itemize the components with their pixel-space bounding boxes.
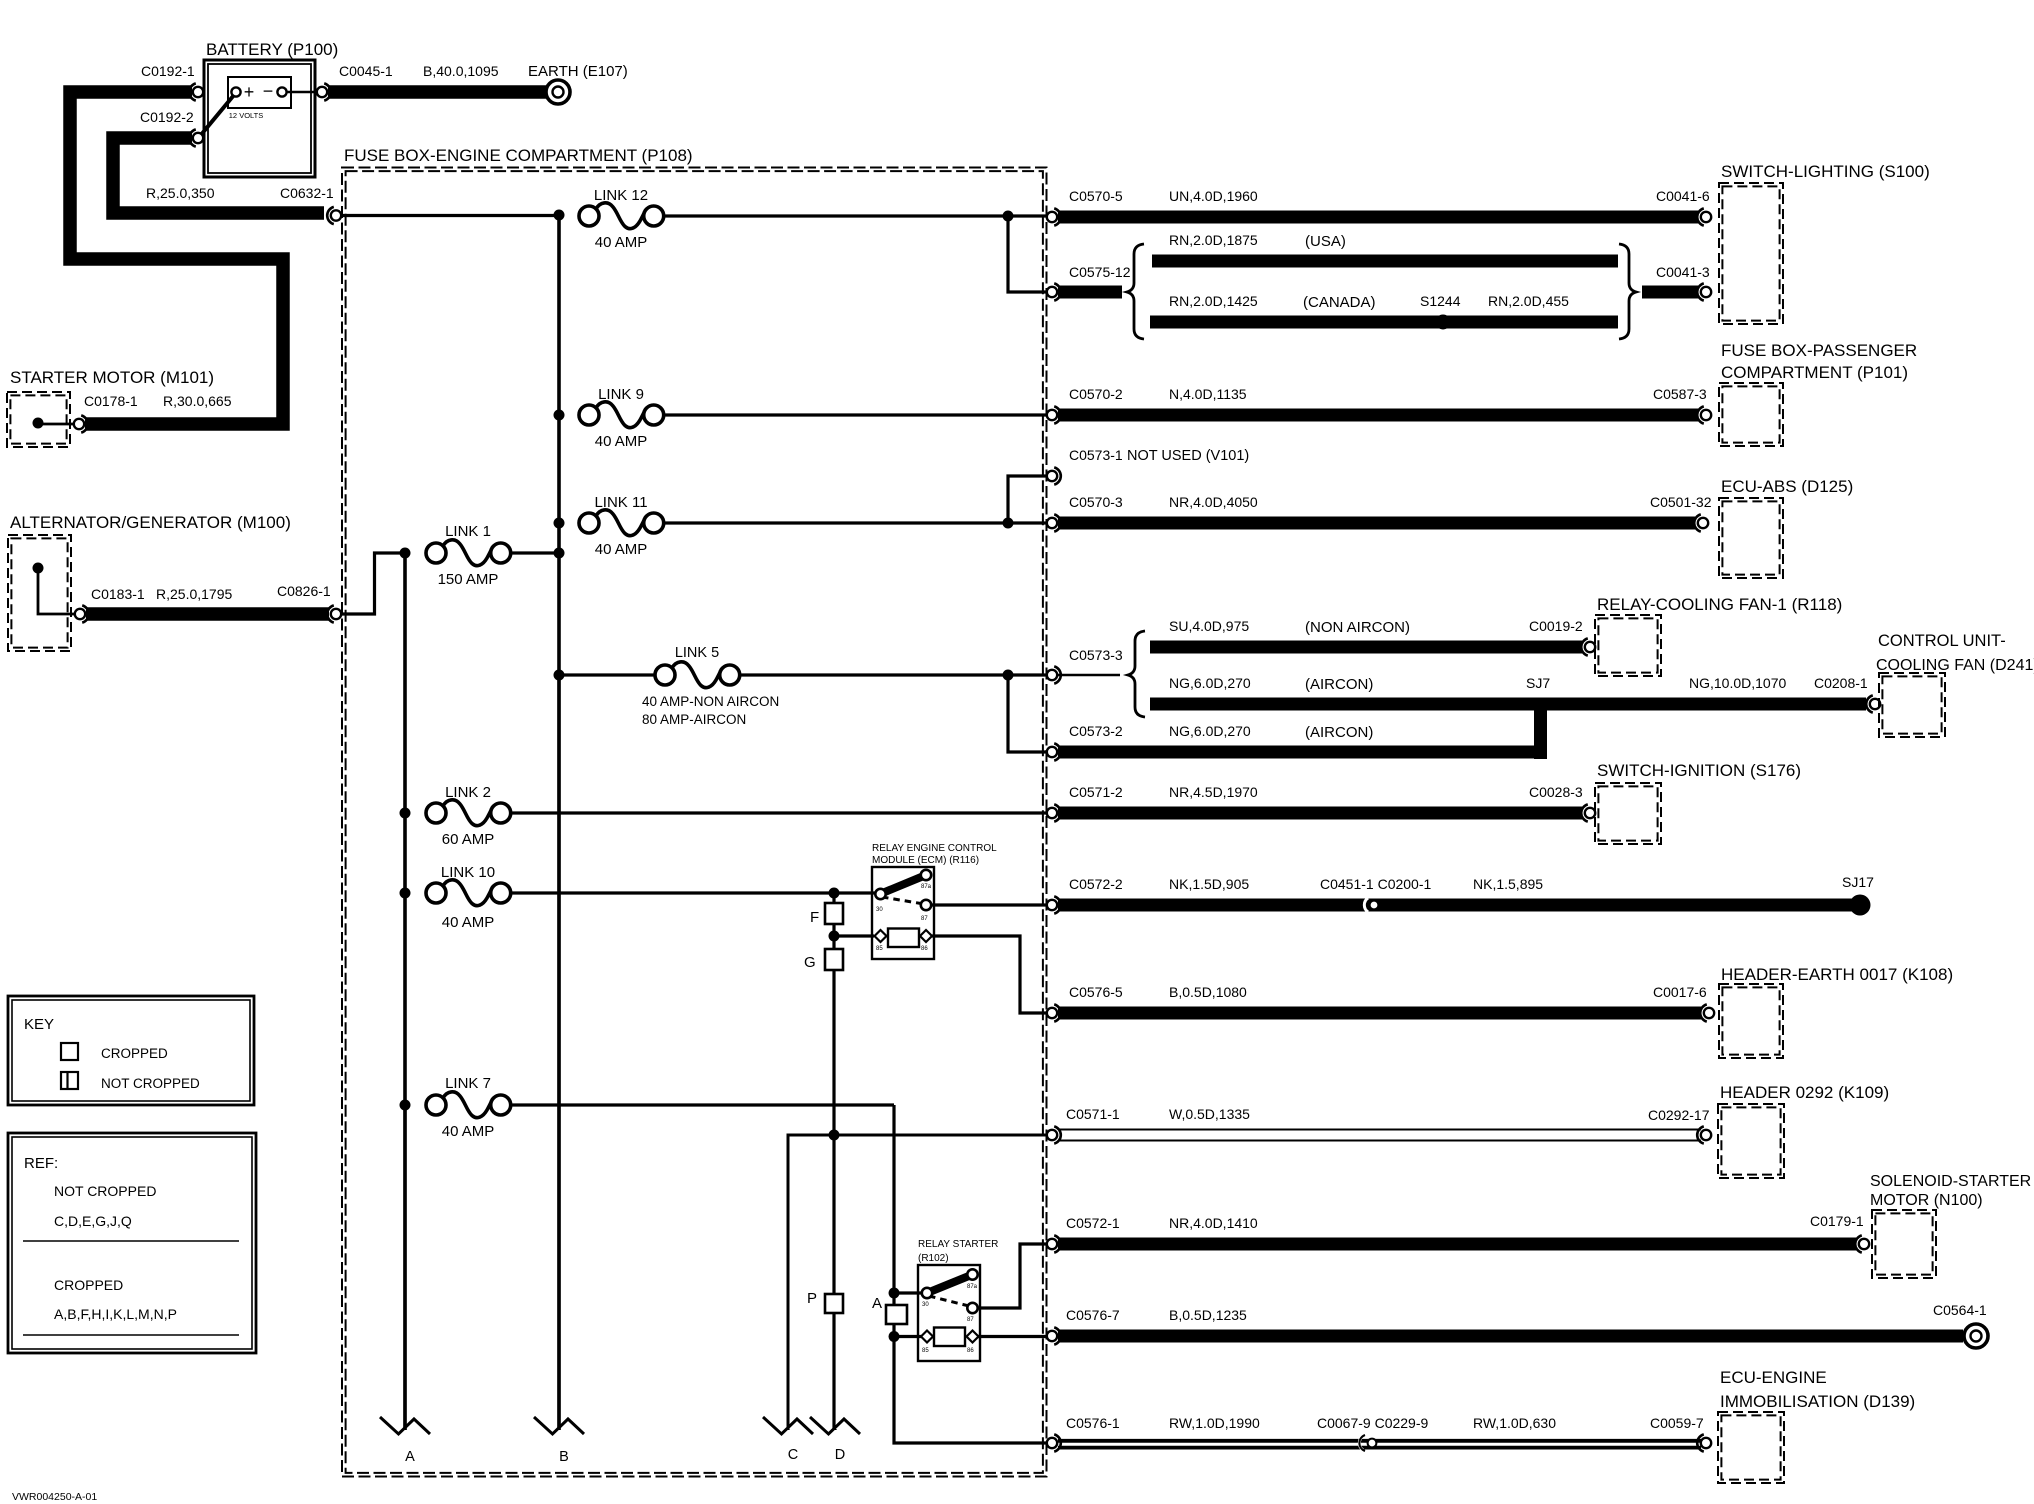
wire B,0.5D,1235 to C0564-1 <box>1058 1330 1963 1343</box>
svg-text:NG,6.0D,270: NG,6.0D,270 <box>1169 723 1251 739</box>
svg-text:B,0.5D,1080: B,0.5D,1080 <box>1169 984 1247 1000</box>
wire W,0.5D,1335 (thin outline) to header 0292 <box>1058 1130 1701 1141</box>
svg-text:B,0.5D,1235: B,0.5D,1235 <box>1169 1307 1247 1323</box>
node C0632-1 <box>331 210 341 220</box>
wire C0632-1 to LINK 12 <box>342 214 559 217</box>
svg-text:ALTERNATOR/GENERATOR (M100): ALTERNATOR/GENERATOR (M100) <box>10 513 291 532</box>
svg-text:B,40.0,1095: B,40.0,1095 <box>423 63 499 79</box>
wire LINK 5 output to C0573-3 <box>740 673 1047 676</box>
svg-text:C0572-2: C0572-2 <box>1069 876 1123 892</box>
svg-text:C0826-1: C0826-1 <box>277 583 331 599</box>
svg-text:RELAY STARTER: RELAY STARTER <box>918 1239 998 1250</box>
svg-text:SWITCH-LIGHTING (S100): SWITCH-LIGHTING (S100) <box>1721 162 1930 181</box>
svg-text:CROPPED: CROPPED <box>101 1046 168 1061</box>
wire R116 coil to C0576-5 <box>932 936 1047 1013</box>
svg-text:85: 85 <box>876 946 883 952</box>
svg-text:C0573-2: C0573-2 <box>1069 723 1123 739</box>
svg-text:NOT CROPPED: NOT CROPPED <box>54 1183 156 1199</box>
junction bus B top <box>554 210 565 221</box>
svg-text:30: 30 <box>922 1302 929 1308</box>
svg-text:S1244: S1244 <box>1420 293 1461 309</box>
wire NK,1.5D,905 / NK,1.5,895 to SJ17 <box>1058 899 1852 912</box>
junction G line / C0571-1 <box>829 1130 840 1141</box>
svg-text:IMMOBILISATION (D139): IMMOBILISATION (D139) <box>1720 1392 1915 1411</box>
wire label R,25.0,350 / C0632-1 <box>146 185 334 201</box>
starter motor M101 <box>7 368 214 447</box>
svg-text:B: B <box>559 1449 569 1465</box>
wire battery positive C0192-1 heavy cable to starter <box>70 92 283 424</box>
svg-text:EARTH (E107): EARTH (E107) <box>528 63 628 80</box>
node C0576-7 <box>1047 1307 1247 1345</box>
svg-text:C,D,E,G,J,Q: C,D,E,G,J,Q <box>54 1213 132 1229</box>
node C0192-1 <box>141 63 203 101</box>
key legend box <box>8 996 254 1105</box>
svg-text:C0041-3: C0041-3 <box>1656 264 1710 280</box>
switch-lighting S100 <box>1719 162 1930 324</box>
junction C0573-2 branch <box>1003 670 1014 681</box>
svg-text:C0179-1: C0179-1 <box>1810 1213 1864 1229</box>
svg-text:60 AMP: 60 AMP <box>442 831 495 848</box>
node C off-page arrow <box>763 1417 813 1463</box>
svg-text:C0292-17: C0292-17 <box>1648 1107 1710 1123</box>
svg-text:SWITCH-IGNITION (S176): SWITCH-IGNITION (S176) <box>1597 761 1801 780</box>
svg-text:BATTERY (P100): BATTERY (P100) <box>206 40 338 59</box>
node C0501-32 <box>1650 494 1712 532</box>
node C0826-1 <box>331 609 341 619</box>
svg-text:C0501-32: C0501-32 <box>1650 494 1712 510</box>
node C0573-1 NOT USED (V101) <box>1047 447 1249 485</box>
svg-text:40 AMP: 40 AMP <box>595 433 648 450</box>
node C0019-2 <box>1529 618 1595 656</box>
svg-text:FUSE BOX-ENGINE COMPARTMENT (P: FUSE BOX-ENGINE COMPARTMENT (P108) <box>344 146 693 165</box>
svg-text:NG,10.0D,1070: NG,10.0D,1070 <box>1689 675 1786 691</box>
svg-text:VWR004250-A-01: VWR004250-A-01 <box>12 1491 97 1503</box>
fuse LINK 9 40 AMP <box>579 402 664 428</box>
wire R102 output to C0572-1 <box>977 1244 1047 1308</box>
relay engine control module R116 <box>872 843 997 959</box>
svg-text:RN,2.0D,1875: RN,2.0D,1875 <box>1169 232 1258 248</box>
svg-text:(USA): (USA) <box>1305 233 1346 250</box>
svg-text:RN,2.0D,455: RN,2.0D,455 <box>1488 293 1569 309</box>
relay cooling fan-1 R118 <box>1595 595 1842 676</box>
svg-text:C0067-9 C0229-9: C0067-9 C0229-9 <box>1317 1415 1429 1431</box>
svg-text:NK,1.5D,905: NK,1.5D,905 <box>1169 876 1249 892</box>
svg-text:R,30.0,665: R,30.0,665 <box>163 393 232 409</box>
svg-text:(CANADA): (CANADA) <box>1303 294 1376 311</box>
svg-text:STARTER MOTOR (M101): STARTER MOTOR (M101) <box>10 368 214 387</box>
svg-text:R,25.0,1795: R,25.0,1795 <box>156 586 232 602</box>
svg-text:LINK 10: LINK 10 <box>441 864 495 881</box>
svg-text:C0019-2: C0019-2 <box>1529 618 1583 634</box>
brace for aircon/non-aircon branches <box>1128 631 1145 717</box>
fuse P <box>807 1135 843 1430</box>
node C0572-1 <box>1047 1215 1258 1253</box>
wire RN,2.0D,1875 (USA) <box>1152 232 1618 268</box>
svg-text:C0017-6: C0017-6 <box>1653 984 1707 1000</box>
junction LINK 5 <box>554 670 565 681</box>
svg-text:UN,4.0D,1960: UN,4.0D,1960 <box>1169 188 1258 204</box>
node C0572-2 <box>1047 876 1250 914</box>
wire LINK 11 output to C0570-3 <box>664 521 1047 524</box>
wire LINK 10 output to relay R116 <box>511 891 876 894</box>
node C0570-5 <box>1047 188 1258 226</box>
svg-text:SU,4.0D,975: SU,4.0D,975 <box>1169 618 1249 634</box>
svg-text:(AIRCON): (AIRCON) <box>1305 724 1373 741</box>
svg-text:SOLENOID-STARTER: SOLENOID-STARTER <box>1870 1173 2031 1190</box>
node C0183-1 / wire R,25.0,1795 to C0826-1 <box>75 586 329 623</box>
splice SJ17 <box>1842 874 1874 916</box>
fuse F <box>810 893 843 936</box>
node C0292-17 <box>1648 1107 1711 1144</box>
svg-text:SJ7: SJ7 <box>1526 675 1550 691</box>
ref legend box <box>8 1133 256 1353</box>
node C0570-2 <box>1047 386 1247 424</box>
svg-text:W,0.5D,1335: W,0.5D,1335 <box>1169 1106 1250 1122</box>
svg-text:LINK 2: LINK 2 <box>445 784 491 801</box>
key not cropped symbol <box>61 1072 200 1091</box>
svg-text:RELAY-COOLING FAN-1 (R118): RELAY-COOLING FAN-1 (R118) <box>1597 595 1842 614</box>
svg-text:12 VOLTS: 12 VOLTS <box>229 111 263 120</box>
switch-ignition S176 <box>1595 761 1801 844</box>
svg-text:A,B,F,H,I,K,L,M,N,P: A,B,F,H,I,K,L,M,N,P <box>54 1306 177 1322</box>
svg-text:85: 85 <box>922 1348 929 1354</box>
wire N,4.0D,1135 to fuse box passenger compartment <box>1058 409 1698 422</box>
ECU engine immobilisation D139 <box>1718 1368 1915 1483</box>
junction for C0575-12 branch <box>1003 211 1014 222</box>
node C0570-3 <box>1047 494 1258 532</box>
svg-text:C0564-1: C0564-1 <box>1933 1302 1987 1318</box>
svg-text:C0576-5: C0576-5 <box>1069 984 1123 1000</box>
svg-text:C0059-7: C0059-7 <box>1650 1415 1704 1431</box>
svg-text:C0208-1: C0208-1 <box>1814 675 1868 691</box>
svg-text:LINK 5: LINK 5 <box>675 645 719 661</box>
header 0292 K109 <box>1718 1083 1889 1178</box>
svg-text:C0192-1: C0192-1 <box>141 63 195 79</box>
node C0571-1 <box>1047 1106 1250 1144</box>
wire junction to R116 coil <box>834 934 874 937</box>
fuse LINK 11 40 AMP <box>579 510 664 536</box>
wire labels NG,10.0D,1070 / C0208-1 <box>1689 675 1868 691</box>
svg-text:KEY: KEY <box>24 1016 54 1033</box>
battery P100 <box>200 40 338 177</box>
svg-text:CONTROL UNIT-: CONTROL UNIT- <box>1878 632 2006 650</box>
svg-text:P: P <box>807 1290 817 1307</box>
node C0041-6 <box>1656 188 1711 226</box>
wire C0826-1 up to LINK 1 <box>342 553 405 614</box>
svg-text:NK,1.5,895: NK,1.5,895 <box>1473 876 1543 892</box>
wire LINK 7 output across to C0576-1 feed <box>511 1103 894 1106</box>
wire NR,4.0D,4050 to ECU-ABS <box>1058 517 1695 530</box>
fuse LINK 7 40 AMP <box>426 1092 511 1118</box>
svg-text:HEADER-EARTH 0017 (K108): HEADER-EARTH 0017 (K108) <box>1721 965 1953 984</box>
svg-text:(NON AIRCON): (NON AIRCON) <box>1305 619 1410 636</box>
wire RW,1.0D,1990 / RW,1.0D,630 to ECU immobilisation <box>1058 1441 1701 1448</box>
svg-text:NR,4.5D,1970: NR,4.5D,1970 <box>1169 784 1258 800</box>
svg-text:C0576-1: C0576-1 <box>1066 1415 1120 1431</box>
svg-text:87: 87 <box>921 916 928 922</box>
svg-text:C0571-1: C0571-1 <box>1066 1106 1120 1122</box>
svg-text:SJ17: SJ17 <box>1842 874 1874 890</box>
fuse LINK 5 <box>642 645 779 727</box>
svg-text:A: A <box>872 1295 882 1312</box>
svg-text:30: 30 <box>876 907 883 913</box>
wire R102 coil to C0576-7 <box>978 1335 1047 1338</box>
svg-text:RELAY ENGINE CONTROL: RELAY ENGINE CONTROL <box>872 843 997 854</box>
svg-text:C0573-1: C0573-1 <box>1069 447 1123 463</box>
svg-text:FUSE BOX-PASSENGER: FUSE BOX-PASSENGER <box>1721 341 1917 360</box>
svg-text:HEADER 0292 (K109): HEADER 0292 (K109) <box>1720 1083 1889 1102</box>
coil pins R116 <box>875 930 933 952</box>
svg-text:ECU-ENGINE: ECU-ENGINE <box>1720 1368 1827 1387</box>
svg-text:LINK 12: LINK 12 <box>594 187 648 204</box>
svg-text:C0570-3: C0570-3 <box>1069 494 1123 510</box>
wire battery negative C0192-2 to fuse box C0632-1 <box>113 138 324 213</box>
key cropped symbol <box>61 1043 168 1061</box>
svg-text:C0451-1 C0200-1: C0451-1 C0200-1 <box>1320 876 1432 892</box>
wire B,0.5D,1080 to header-earth <box>1058 1007 1701 1020</box>
node C0178-1 <box>74 393 232 433</box>
splice SJ7 vertical link <box>1526 675 1550 759</box>
splice S1244 <box>1420 293 1461 330</box>
svg-text:87: 87 <box>967 1317 974 1323</box>
svg-text:40 AMP: 40 AMP <box>442 1123 495 1140</box>
node C0564-1 ring terminal <box>1933 1302 1988 1348</box>
svg-text:87a: 87a <box>967 1284 978 1290</box>
svg-text:RN,2.0D,1425: RN,2.0D,1425 <box>1169 293 1258 309</box>
svg-text:COMPARTMENT (P101): COMPARTMENT (P101) <box>1721 363 1908 382</box>
svg-text:N,4.0D,1135: N,4.0D,1135 <box>1169 386 1247 402</box>
wire to relay starter coil <box>894 1335 921 1338</box>
svg-text:86: 86 <box>967 1348 974 1354</box>
svg-text:RW,1.0D,1990: RW,1.0D,1990 <box>1169 1415 1260 1431</box>
node C0575-12 <box>1047 264 1131 301</box>
svg-text:C: C <box>788 1447 798 1463</box>
wire NR,4.0D,1410 to solenoid-starter motor <box>1058 1238 1856 1251</box>
svg-text:150 AMP: 150 AMP <box>438 571 499 588</box>
node C0576-1 <box>1047 1415 1260 1452</box>
wire NG,6.0D,270 (AIRCON) upper to control unit cooling fan <box>1150 675 1866 711</box>
svg-text:C0028-3: C0028-3 <box>1529 784 1583 800</box>
svg-text:R,25.0,350: R,25.0,350 <box>146 185 215 201</box>
svg-text:D: D <box>835 1447 845 1463</box>
svg-text:40 AMP-NON AIRCON: 40 AMP-NON AIRCON <box>642 694 779 709</box>
svg-text:+: + <box>244 82 255 102</box>
junction LINK 1 / bus B <box>554 548 565 559</box>
fuse A <box>872 1295 907 1324</box>
fuse G <box>804 936 843 1135</box>
svg-text:NR,4.0D,4050: NR,4.0D,4050 <box>1169 494 1258 510</box>
svg-text:C0178-1: C0178-1 <box>84 393 138 409</box>
wire NR,4.5D,1970 to switch-ignition <box>1058 807 1582 820</box>
wire RN,2.0D,1425 (CANADA) with splice S1244 <box>1150 293 1618 329</box>
wire LINK 12 output to C0570-5 <box>664 214 1047 217</box>
ECU-ABS D125 <box>1719 477 1853 578</box>
fuse LINK 1 150 AMP <box>426 540 511 566</box>
svg-text:C0632-1: C0632-1 <box>280 185 334 201</box>
svg-text:C0576-7: C0576-7 <box>1066 1307 1120 1323</box>
node C0179-1 <box>1810 1213 1869 1253</box>
wire SU,4.0D,975 (NON AIRCON) to relay cooling fan <box>1150 618 1582 654</box>
svg-text:C0570-5: C0570-5 <box>1069 188 1123 204</box>
svg-text:MODULE (ECM) (R116): MODULE (ECM) (R116) <box>872 855 979 866</box>
wire branch down to C0575-12 <box>1008 216 1047 292</box>
relay starter R102 <box>918 1239 998 1361</box>
svg-text:86: 86 <box>921 946 928 952</box>
wire C arrow feed to C0571-1 <box>788 1135 1047 1430</box>
fuse LINK 2 60 AMP <box>426 800 511 826</box>
svg-text:40 AMP: 40 AMP <box>595 234 648 251</box>
junction LINK 2 <box>400 808 411 819</box>
wire NG,6.0D,270 (AIRCON) lower joining SJ7 <box>1058 746 1547 759</box>
node B off-page arrow <box>534 675 584 1465</box>
junction LINK 7 <box>400 1100 411 1111</box>
svg-text:C0572-1: C0572-1 <box>1066 1215 1120 1231</box>
svg-text:C0041-6: C0041-6 <box>1656 188 1710 204</box>
node C0041-3 <box>1656 264 1711 301</box>
svg-text:REF:: REF: <box>24 1155 58 1172</box>
fuse box engine compartment P108 <box>342 146 1047 1477</box>
junction coil branch G <box>829 931 840 942</box>
junction LINK 9 <box>554 410 565 421</box>
svg-text:40 AMP: 40 AMP <box>595 541 648 558</box>
svg-text:(R102): (R102) <box>918 1253 949 1264</box>
svg-text:C0192-2: C0192-2 <box>140 109 194 125</box>
svg-text:RW,1.0D,630: RW,1.0D,630 <box>1473 1415 1556 1431</box>
wire C0045-1 battery to earth B,40.0,1095 <box>317 63 546 101</box>
node C0571-2 <box>1047 784 1258 822</box>
svg-text:LINK 1: LINK 1 <box>445 523 491 540</box>
brace right joining branches <box>1619 244 1636 339</box>
node C0576-5 <box>1047 984 1247 1022</box>
svg-text:C0573-3: C0573-3 <box>1069 647 1123 663</box>
svg-text:COOLING FAN (D241): COOLING FAN (D241) <box>1876 657 2034 674</box>
node C0028-3 <box>1529 784 1595 822</box>
wire stub to C0041-3 <box>1642 286 1698 299</box>
svg-text:NOT CROPPED: NOT CROPPED <box>101 1076 200 1091</box>
junction LINK 1 input <box>400 548 411 559</box>
node C0017-6 <box>1653 984 1714 1022</box>
node A off-page arrow <box>380 1105 430 1465</box>
wire LINK 9 output to C0570-2 <box>664 413 1047 416</box>
svg-text:NG,6.0D,270: NG,6.0D,270 <box>1169 675 1251 691</box>
alternator/generator M100 <box>8 513 291 651</box>
svg-text:CROPPED: CROPPED <box>54 1277 123 1293</box>
wire to relay starter pin 30 <box>894 1291 922 1294</box>
svg-text:NR,4.0D,1410: NR,4.0D,1410 <box>1169 1215 1258 1231</box>
svg-text:−: − <box>263 81 274 101</box>
wire bus B to LINK 5 <box>559 673 655 676</box>
svg-text:LINK 9: LINK 9 <box>598 386 644 403</box>
node C0192-2 <box>140 109 203 147</box>
connector C0451-1 C0200-1 inline <box>1320 876 1543 912</box>
ground EARTH E107 ring terminal <box>528 63 628 104</box>
svg-text:C0570-2: C0570-2 <box>1069 386 1123 402</box>
junction relay starter feed <box>889 1288 900 1299</box>
wire C0573-3 stub to brace <box>1058 674 1120 676</box>
wire bus B (vertical from C0632-1 row to arrow B) <box>557 215 561 1430</box>
fuse LINK 10 40 AMP <box>426 880 511 906</box>
fuse LINK 12 40 AMP <box>579 203 664 229</box>
node C0573-2 <box>1047 723 1374 761</box>
svg-text:80 AMP-AIRCON: 80 AMP-AIRCON <box>642 712 746 727</box>
node C0587-3 <box>1653 386 1711 424</box>
svg-text:40 AMP: 40 AMP <box>442 914 495 931</box>
svg-text:87a: 87a <box>921 884 932 890</box>
junction LINK 11 <box>554 518 565 529</box>
svg-text:C0045-1: C0045-1 <box>339 63 393 79</box>
wire vertical feed to relay starter and C0576-1 <box>894 1105 1047 1443</box>
solenoid-starter motor N100 <box>1870 1173 2031 1278</box>
wire LINK 2 output to C0571-2 <box>511 811 1047 814</box>
connector C0067-9 C0229-9 inline <box>1317 1415 1556 1451</box>
svg-text:LINK 11: LINK 11 <box>594 494 647 511</box>
svg-text:F: F <box>810 909 819 926</box>
fuse box passenger compartment P101 <box>1719 341 1917 446</box>
control unit cooling fan D241 <box>1876 632 2034 737</box>
brace left of USA/CANADA branches <box>1127 244 1144 339</box>
header-earth 0017 K108 <box>1719 965 1953 1058</box>
svg-text:ECU-ABS (D125): ECU-ABS (D125) <box>1721 477 1853 496</box>
svg-text:C0183-1: C0183-1 <box>91 586 145 602</box>
svg-text:MOTOR (N100): MOTOR (N100) <box>1870 1192 1983 1209</box>
svg-text:LINK 7: LINK 7 <box>445 1075 491 1092</box>
wire R116 output to C0572-2 <box>931 903 1047 906</box>
node C0573-3 <box>1047 647 1123 684</box>
node C0208-1 <box>1870 699 1880 709</box>
wire UN,4.0D,1960 to switch-lighting <box>1058 211 1698 224</box>
node C0059-7 <box>1650 1415 1711 1452</box>
svg-text:C0575-12: C0575-12 <box>1069 264 1131 280</box>
svg-text:NOT USED (V101): NOT USED (V101) <box>1127 448 1249 464</box>
svg-text:(AIRCON): (AIRCON) <box>1305 676 1373 693</box>
wire LINK 1 output to bus B <box>511 551 559 554</box>
svg-text:A: A <box>405 1449 415 1465</box>
svg-text:G: G <box>804 954 816 971</box>
coil pins R102 <box>921 1331 979 1355</box>
svg-text:C0571-2: C0571-2 <box>1069 784 1123 800</box>
junction F branch <box>829 888 840 899</box>
wire C0573-1 down to LINK 11 output <box>1008 476 1047 523</box>
junction C0573-1 tap <box>1003 518 1014 529</box>
wire branch down to C0573-2 <box>1008 675 1047 752</box>
node D off-page arrow <box>810 1417 860 1463</box>
wire bus A (vertical from LINK 1 to arrow A) <box>403 553 407 1430</box>
wire C0575-12 stub <box>1058 286 1122 299</box>
svg-text:C0587-3: C0587-3 <box>1653 386 1707 402</box>
junction LINK 10 <box>400 888 411 899</box>
junction relay starter coil feed <box>889 1331 900 1342</box>
